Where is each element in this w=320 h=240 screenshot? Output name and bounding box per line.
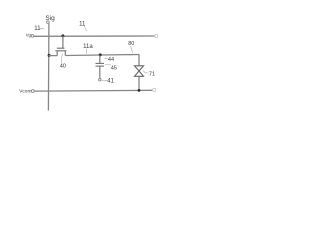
svg-text:Vg: Vg bbox=[26, 33, 32, 38]
terminal circle Vcom bbox=[31, 90, 34, 93]
transistor 40 gate bar bbox=[57, 47, 65, 49]
junction gate on Vg line bbox=[61, 34, 64, 37]
leader 40 bbox=[61, 53, 64, 63]
terminal circle Sig bbox=[47, 21, 50, 24]
wire gate line Vg horizontal bbox=[34, 35, 155, 37]
svg-text:11a: 11a bbox=[83, 44, 93, 50]
svg-text:80: 80 bbox=[128, 41, 134, 47]
diode pair 71 upper triangle bbox=[135, 66, 144, 71]
svg-text:44: 44 bbox=[108, 57, 114, 63]
wire common line Vcom horizontal bbox=[34, 89, 152, 92]
leader 41 bbox=[101, 80, 108, 81]
leader 11 gate line bbox=[84, 26, 86, 31]
wire signal line vertical bbox=[47, 24, 50, 111]
svg-text:40: 40 bbox=[60, 64, 66, 70]
diode pair 71 lower triangle bbox=[135, 71, 144, 76]
leader 44 bbox=[104, 57, 107, 59]
wire drain to corner bbox=[65, 55, 139, 56]
svg-text:41: 41 bbox=[107, 79, 114, 85]
capacitor top lead bbox=[99, 55, 101, 63]
svg-text:11: 11 bbox=[79, 22, 86, 28]
transistor 40 drain lead bbox=[64, 51, 66, 56]
wire source bbox=[49, 55, 58, 57]
transistor 40 source lead bbox=[56, 51, 58, 56]
leader 71 bbox=[143, 71, 148, 74]
transistor 40 gate lead bbox=[62, 36, 64, 48]
leader 80 bbox=[131, 46, 133, 53]
leader 45 bbox=[105, 64, 111, 66]
leader 11a bbox=[85, 49, 87, 54]
capacitor top plate 44 bbox=[96, 62, 105, 64]
wire corner down to diode bbox=[138, 54, 140, 65]
svg-text:11: 11 bbox=[34, 26, 41, 32]
terminal circle capacitor 41 bbox=[99, 79, 101, 81]
terminal circle gate line right end bbox=[155, 35, 158, 38]
svg-text:45: 45 bbox=[111, 65, 117, 71]
leader 11 signal line bbox=[40, 27, 44, 30]
capacitor bottom lead bbox=[99, 66, 101, 78]
transistor 40 channel bar bbox=[55, 50, 66, 52]
junction capacitor on drain wire bbox=[99, 53, 102, 56]
svg-text:71: 71 bbox=[149, 72, 155, 78]
terminal circle common line right end bbox=[153, 88, 156, 91]
wire diode to Vcom line bbox=[138, 76, 140, 90]
junction source wire to signal line bbox=[48, 54, 51, 57]
terminal circle Vg bbox=[31, 35, 34, 38]
capacitor bottom plate 45 bbox=[96, 65, 105, 67]
junction diode to Vcom bbox=[138, 89, 141, 92]
svg-text:Vcom: Vcom bbox=[19, 89, 31, 95]
